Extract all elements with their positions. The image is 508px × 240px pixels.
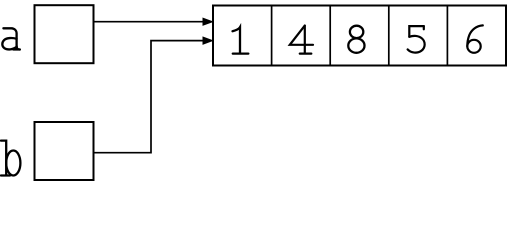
wire b: box b right, up, into array xyxy=(94,41,205,153)
arrowhead b xyxy=(203,37,213,44)
cell value 5 (digit glyph) xyxy=(408,26,425,53)
cell divider 3 xyxy=(388,6,390,66)
array outer box xyxy=(213,6,506,66)
box b (variable b) xyxy=(35,122,94,180)
label b (letter b glyph) xyxy=(1,141,20,176)
wire a: box a to array xyxy=(94,21,205,23)
cell divider 1 xyxy=(271,6,273,66)
cell value 4 (digit glyph) xyxy=(290,26,313,54)
arrowhead a xyxy=(203,18,213,25)
cell value 8 (digit glyph) xyxy=(348,26,364,53)
cell value 6 (digit glyph) xyxy=(467,25,483,52)
label a (letter a glyph) xyxy=(2,28,19,49)
box a (variable a) xyxy=(35,5,94,63)
cell divider 2 xyxy=(329,6,331,66)
cell divider 4 xyxy=(446,6,448,66)
cell value 1 (digit glyph) xyxy=(233,27,249,53)
